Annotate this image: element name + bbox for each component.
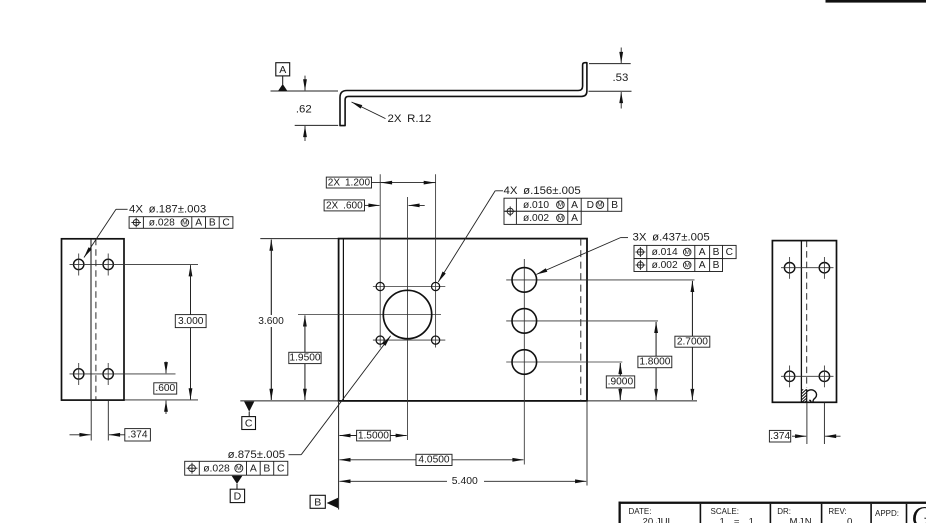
centerline horizontal small holes bottom row [373,339,445,341]
svg-text:2X R.12: 2X R.12 [388,113,432,125]
svg-text:M: M [684,249,690,256]
svg-text:.53: .53 [612,72,628,84]
svg-text:4.0500: 4.0500 [418,455,449,466]
dimension 1.9500 [289,315,321,400]
svg-text:D: D [587,200,594,211]
svg-text:20 JUL: 20 JUL [643,516,674,523]
top edge extension for 3.600 [260,238,338,240]
svg-text:3X ø.437±.005: 3X ø.437±.005 [633,232,710,244]
centerline horizontal medium hole middle [506,320,658,322]
left view lines below rect for .374 [90,400,92,440]
svg-text:4X ø.156±.005: 4X ø.156±.005 [504,185,581,197]
dimension 4.0500 [339,454,523,465]
dimension .53 [589,48,632,109]
dimension .62 [295,76,339,141]
plate outline [339,239,587,401]
svg-text:C: C [245,418,253,430]
svg-text:C: C [277,463,285,474]
svg-text:3.600: 3.600 [258,316,284,327]
svg-text:M: M [597,202,603,209]
left view hole top-left [74,259,84,269]
svg-text:A: A [699,260,706,271]
left view hole centerlines [70,263,199,265]
svg-text:A: A [279,64,286,76]
svg-text:C: C [726,247,733,258]
plate left bend edge line [342,239,344,401]
left view bottom edge extension [124,399,198,401]
small hole top-left [376,282,384,290]
medium hole top [512,268,537,293]
FCF position 3X holes row2 [634,259,723,272]
svg-text:4X ø.187±.003: 4X ø.187±.003 [129,204,206,216]
medium hole bottom [512,350,537,375]
svg-text:SCALE:: SCALE: [711,507,739,516]
centerline horizontal small holes top row [373,286,445,288]
datum B flag [310,495,338,508]
svg-text:.374: .374 [770,431,790,442]
left edge extension below plate [338,402,340,510]
left view hole top-right [103,259,113,269]
svg-text:B: B [263,463,270,474]
bottom edge extension left of plate [240,400,338,402]
svg-text:M: M [684,262,690,269]
leader 4X ø.156 [438,185,580,282]
svg-text:DATE:: DATE: [629,507,652,516]
dimension .374 left view [70,429,151,441]
svg-text:ø.010: ø.010 [523,200,549,211]
datum D flag [230,476,244,503]
centerline vertical medium holes column [523,259,525,465]
right view lines below rect for .374 [806,402,808,444]
dimension 1.8000 [638,322,672,400]
dimension 2.7000 [675,281,710,400]
svg-text:A: A [571,200,578,211]
svg-text:2.7000: 2.7000 [677,336,708,347]
right view bend hidden line [806,241,808,388]
svg-text:MJN: MJN [790,516,813,523]
svg-text:B: B [314,496,321,508]
left view bend tangent line [90,239,92,400]
svg-text:.62: .62 [296,103,312,115]
svg-text:A: A [699,247,706,258]
svg-text:1.5000: 1.5000 [358,430,389,441]
svg-text:C: C [222,218,229,229]
centerline vertical hole column right [435,174,437,347]
right view hole centerlines [781,267,834,269]
leader ø.875 [228,336,391,461]
right view hole bottom-right [819,371,829,381]
left view hole bottom-right [103,369,113,379]
svg-text:M: M [182,220,188,227]
dimension 3.600 [257,240,286,400]
svg-text:M: M [558,215,564,222]
dimension 2X 1.200 [326,177,435,188]
svg-text:M: M [558,202,564,209]
leader 4X ø.187 [84,204,206,258]
FCF position 3X holes row1 [634,245,736,258]
leader 3X ø.437 [536,232,709,275]
dimension 3.000 [175,265,206,399]
sheet border segment top right [826,0,926,3]
right view hole bottom-left [784,371,794,381]
broken-out section of bend (hatched) [802,389,817,402]
datum A extension line [271,90,339,92]
small hole bottom-left [376,336,384,344]
right edge extension below plate [586,402,588,486]
right view hole top-left [784,263,794,273]
leader 2X R.12 [352,102,432,125]
svg-text:1.8000: 1.8000 [639,357,670,368]
svg-text:2X .600: 2X .600 [326,200,363,211]
svg-text:1 = 1: 1 = 1 [720,516,758,523]
svg-text:0: 0 [847,516,852,523]
svg-text:ø.014: ø.014 [652,247,678,258]
svg-text:5.400: 5.400 [452,476,478,487]
svg-text:B: B [713,247,720,258]
svg-text:B: B [611,200,618,211]
small hole bottom-right [432,336,440,344]
FCF composite position 4X holes [504,198,622,224]
big hole ø.875 [383,290,431,338]
svg-text:.9000: .9000 [608,377,634,388]
svg-text:APPD:: APPD: [875,509,899,518]
svg-text:.600: .600 [155,383,175,394]
svg-text:REV:: REV: [828,507,846,516]
svg-text:A: A [195,218,202,229]
small hole top-right [432,282,440,290]
dimension .374 right view [769,430,840,442]
centerline horizontal medium hole bottom [506,361,622,363]
svg-text:A: A [250,463,257,474]
centerline horizontal big hole [298,314,441,316]
dimension .600 [154,362,177,415]
right view outline [772,241,836,403]
svg-text:DR:: DR: [777,507,791,516]
dimension .9000 [606,363,634,400]
datum C flag [242,402,256,430]
svg-text:A: A [571,213,578,224]
medium hole middle [512,309,537,334]
svg-text:2X 1.200: 2X 1.200 [328,178,371,189]
bent sheet profile (Z section) [340,63,587,126]
svg-text:ø.875±.005: ø.875±.005 [228,449,286,461]
left view hole bottom-left [74,369,84,379]
svg-text:D: D [234,490,242,502]
centerline horizontal medium hole top [506,279,694,281]
svg-text:ø.002: ø.002 [652,260,678,271]
FCF position ø.875 [185,461,288,475]
right view bend tangent line [800,241,802,403]
datum A flag [276,63,290,91]
dimension 2X .600 [324,200,425,211]
svg-text:B: B [713,260,720,271]
dimension 5.400 [339,476,586,487]
svg-text:3.000: 3.000 [178,316,204,327]
dimension 1.5000 [339,430,406,441]
svg-text:ø.028: ø.028 [149,218,175,229]
bottom edge extension right of plate [587,400,697,402]
svg-text:.374: .374 [128,430,148,441]
left view outline [62,239,125,400]
svg-text:1.9500: 1.9500 [289,353,320,364]
svg-text:M: M [236,465,242,472]
left view bend hidden line [95,239,97,400]
FCF position ø.028 left view [129,217,233,229]
svg-text:ø.002: ø.002 [523,213,549,224]
plate right bend hidden line [580,239,582,401]
svg-text:ø.028: ø.028 [203,463,230,474]
svg-text:B: B [209,218,216,229]
svg-text:G: G [912,502,926,523]
right view hole top-right [819,263,829,273]
centerline vertical big hole [407,197,409,440]
title block frame [619,502,926,523]
centerline vertical hole column left [379,174,381,347]
